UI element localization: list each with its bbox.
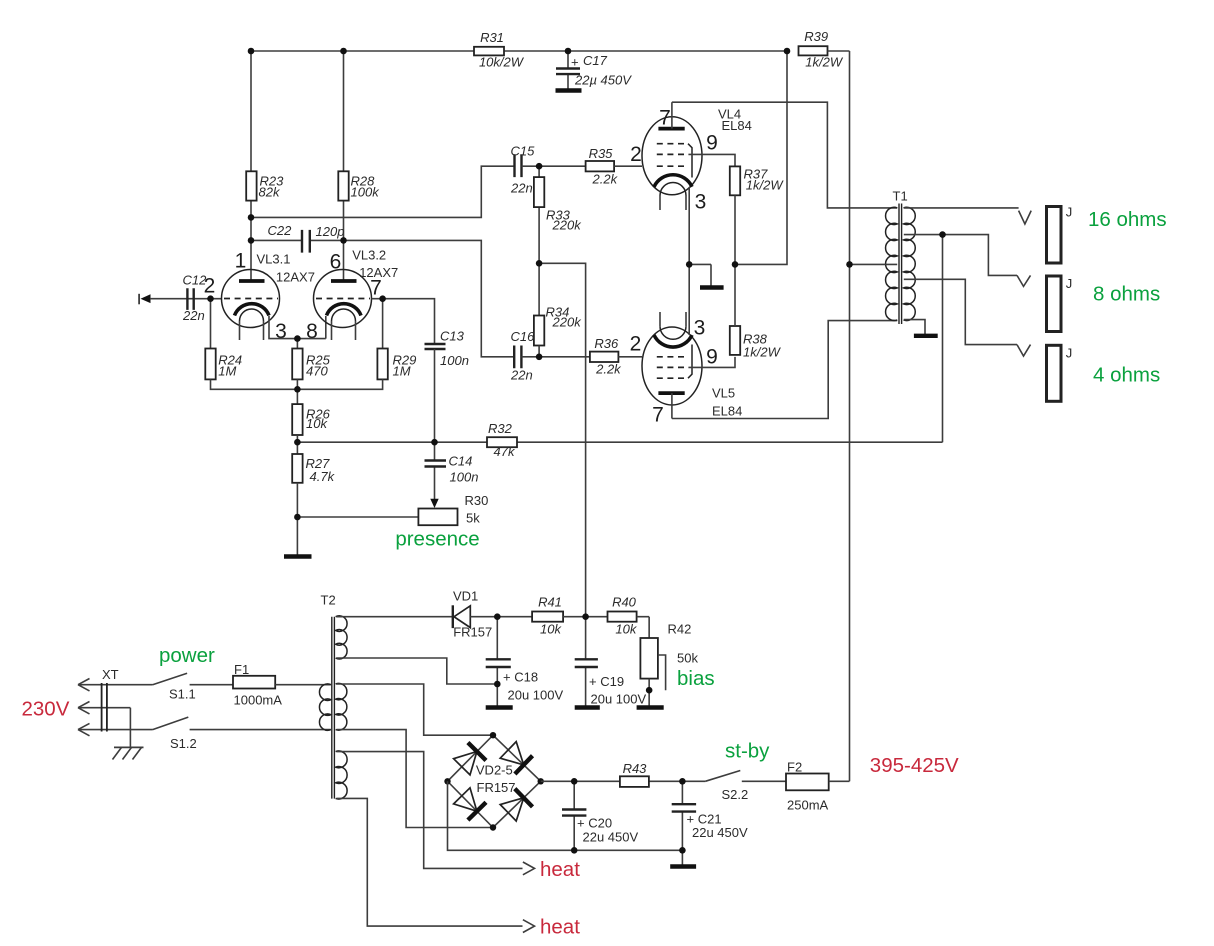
wire mains top — [78, 684, 153, 686]
wire screen B+ drop x787 — [735, 51, 787, 264]
wire VL4 plate pin7 to T1 — [672, 102, 897, 208]
svg-text:8: 8 — [306, 320, 318, 343]
svg-text:+: + — [571, 55, 579, 70]
resistor R36 — [590, 336, 622, 377]
svg-text:100n: 100n — [450, 470, 479, 485]
resistor R27 — [292, 454, 335, 484]
wire R28 anode branch — [343, 51, 345, 281]
svg-text:EL84: EL84 — [712, 404, 742, 419]
svg-text:22n: 22n — [510, 367, 533, 382]
svg-text:20u 100V: 20u 100V — [591, 691, 647, 706]
resistor R32 — [487, 421, 517, 459]
wire T1 tap to 4ohm jack — [904, 279, 1017, 344]
resistor R33 — [534, 166, 582, 315]
svg-text:470: 470 — [306, 364, 328, 379]
wire S1.1 to F1 — [190, 684, 233, 686]
wire R27 to ground and R30 — [297, 483, 418, 556]
wire T1 primary center tap — [850, 263, 898, 265]
pentode VL4 — [642, 102, 752, 210]
svg-text:R42: R42 — [668, 622, 692, 637]
resistor R41 — [532, 595, 563, 637]
svg-text:J: J — [1066, 276, 1073, 291]
wire cathode rail — [211, 379, 383, 404]
jack 16 ohms — [1047, 204, 1073, 263]
wire VL5 screen pin9 to R38 — [688, 357, 735, 368]
capacitor C22 — [251, 223, 344, 253]
bridge rectifier VD2-5 — [448, 735, 541, 827]
wire R26 to R27 — [296, 435, 298, 454]
svg-text:J: J — [1066, 204, 1073, 219]
jack 4 ohms — [1047, 345, 1073, 401]
resistor R40 — [608, 595, 638, 637]
capacitor C20 — [562, 781, 638, 850]
svg-text:3: 3 — [694, 317, 706, 340]
svg-text:8 ohms: 8 ohms — [1093, 283, 1160, 306]
wire F1 to T2 — [275, 684, 331, 686]
transformer T1 — [886, 189, 916, 325]
wire VL3.2 cathode pin8 down to R25 — [297, 316, 325, 349]
wire VL4 screen pin9 to R37 — [688, 154, 735, 166]
svg-text:S2.2: S2.2 — [722, 787, 749, 802]
ground at C21 — [670, 864, 696, 868]
svg-text:C17: C17 — [583, 53, 608, 68]
resistor R39 — [799, 29, 844, 70]
svg-text:10k: 10k — [615, 621, 637, 636]
svg-text:3: 3 — [695, 191, 707, 214]
capacitor C17 — [556, 51, 633, 91]
svg-text:1k/2W: 1k/2W — [743, 344, 782, 359]
svg-text:10k: 10k — [540, 621, 562, 636]
svg-text:EL84: EL84 — [722, 118, 752, 133]
wire R41 to R40 — [563, 616, 607, 618]
svg-text:C14: C14 — [449, 454, 473, 469]
svg-text:50k: 50k — [677, 651, 698, 666]
svg-text:bias: bias — [677, 667, 715, 690]
svg-text:100k: 100k — [351, 185, 381, 200]
svg-text:R30: R30 — [465, 493, 489, 508]
svg-text:220k: 220k — [552, 218, 583, 233]
svg-text:+ C19: + C19 — [589, 674, 624, 689]
svg-text:VD1: VD1 — [453, 589, 478, 604]
svg-text:R40: R40 — [612, 595, 637, 610]
capacitor C18 — [486, 617, 564, 706]
wire T1 secondary bottom to ground — [904, 320, 925, 335]
svg-text:F1: F1 — [234, 662, 249, 677]
diode VD4 bottom-left — [454, 788, 486, 820]
svg-text:J: J — [1066, 345, 1073, 360]
triode VL3.1 — [222, 252, 315, 340]
diode VD5 bottom-right — [500, 789, 532, 821]
svg-text:1M: 1M — [218, 364, 236, 379]
svg-text:2.2k: 2.2k — [595, 362, 622, 377]
svg-text:22n: 22n — [182, 308, 205, 323]
svg-text:C13: C13 — [440, 329, 465, 344]
wire T2 HT winding bottom to bridge — [337, 730, 494, 828]
wire feedback drop to R32 — [942, 235, 944, 443]
resistor R26 — [292, 404, 330, 435]
svg-text:230V: 230V — [22, 697, 70, 720]
wire T2 heater winding 2 bottom to heat — [337, 798, 523, 926]
supply junction dots — [494, 613, 686, 853]
svg-text:10k/2W: 10k/2W — [479, 55, 525, 70]
switch S1.2 — [153, 717, 197, 751]
wire VL3.1 cathode pin3 — [269, 316, 326, 339]
wire F2 to HT — [829, 780, 850, 782]
wire T2 heater winding 1 top to heat — [337, 752, 523, 869]
svg-text:9: 9 — [706, 132, 718, 155]
diode VD2 top-left — [454, 743, 486, 775]
ground at EL84 cathodes — [700, 285, 724, 289]
svg-text:presence: presence — [395, 528, 479, 551]
wire VD1 to R41 — [470, 616, 532, 618]
svg-text:22u 450V: 22u 450V — [583, 830, 639, 845]
jack tip mark 8 ohms — [1017, 275, 1031, 286]
triode VL3.2 — [314, 247, 399, 340]
wire R24 drop — [210, 299, 212, 349]
svg-text:22n: 22n — [510, 181, 533, 196]
svg-text:7: 7 — [370, 277, 382, 300]
svg-text:R31: R31 — [480, 30, 504, 45]
svg-text:FR157: FR157 — [453, 625, 492, 640]
svg-text:st-by: st-by — [725, 740, 770, 763]
switch S1.1 — [153, 673, 196, 701]
svg-text:12AX7: 12AX7 — [276, 269, 315, 284]
svg-text:2: 2 — [630, 333, 642, 356]
svg-text:4.7k: 4.7k — [310, 469, 336, 484]
svg-text:R35: R35 — [589, 146, 614, 161]
svg-text:R36: R36 — [594, 336, 619, 351]
power input arrows 230V — [78, 679, 90, 736]
resistor R35 — [586, 146, 619, 187]
wire T1 tap to 8ohm jack and feedback — [904, 235, 1017, 276]
ground at T1 secondary — [914, 334, 938, 338]
svg-text:250mA: 250mA — [787, 798, 829, 813]
resistor R38 — [730, 326, 782, 359]
svg-text:7: 7 — [659, 107, 671, 130]
capacitor C12 — [182, 272, 207, 323]
wire R32 row — [297, 441, 942, 443]
resistor R43 — [620, 761, 649, 787]
wire C15 junction to R35 — [539, 165, 586, 167]
svg-text:+ C20: + C20 — [577, 816, 612, 831]
svg-text:S1.1: S1.1 — [169, 686, 196, 701]
svg-text:22u 450V: 22u 450V — [692, 825, 748, 840]
svg-text:1k/2W: 1k/2W — [805, 54, 844, 69]
svg-text:4 ohms: 4 ohms — [1093, 363, 1160, 386]
svg-text:220k: 220k — [552, 315, 583, 330]
wire T2 bias winding top to VD1 — [337, 616, 453, 618]
svg-text:7: 7 — [652, 404, 664, 427]
svg-text:1: 1 — [235, 250, 247, 273]
wire cathode junction to ground — [689, 264, 711, 286]
wire R23 anode branch — [250, 51, 252, 281]
wire T2 bias winding bottom to C18 — [337, 658, 498, 684]
svg-text:395-425V: 395-425V — [870, 754, 959, 777]
svg-text:16 ohms: 16 ohms — [1088, 208, 1167, 231]
svg-text:T2: T2 — [321, 593, 336, 608]
wire S2.2 to F2 — [742, 780, 786, 782]
capacitor C13 — [425, 329, 469, 443]
capacitor C16 — [510, 329, 590, 383]
svg-text:VL3.2: VL3.2 — [352, 247, 386, 262]
diode VD3 top-right — [500, 742, 532, 774]
resistor R29 — [377, 349, 416, 380]
svg-text:82k: 82k — [259, 185, 281, 200]
resistor R25 — [292, 349, 330, 380]
ground at R42 — [637, 705, 664, 709]
svg-text:1000mA: 1000mA — [234, 693, 283, 708]
svg-text:power: power — [159, 644, 215, 667]
svg-text:R39: R39 — [804, 29, 828, 44]
svg-text:2: 2 — [204, 275, 216, 298]
wire T1 secondary top to 16ohm jack — [904, 207, 1019, 209]
fuse F1 — [233, 662, 282, 708]
wire VL5 cathode pin3 up — [688, 264, 690, 335]
resistor R23 — [246, 171, 284, 200]
jack tip mark 16 ohms — [1019, 211, 1032, 224]
wire VL4 cathode pin3 down — [688, 187, 690, 264]
svg-text:3: 3 — [275, 320, 287, 343]
wire VL5 plate pin7 to T1 — [672, 321, 897, 419]
jack 8 ohms — [1047, 276, 1073, 332]
resistor R37 — [730, 166, 785, 195]
svg-text:heat: heat — [540, 916, 580, 939]
resistor R31 — [474, 30, 525, 70]
wire S1.2 to T2 — [190, 729, 331, 731]
capacitor C14 — [425, 442, 479, 508]
svg-text:C22: C22 — [268, 223, 293, 238]
svg-text:R32: R32 — [488, 421, 513, 436]
svg-text:+ C18: + C18 — [503, 670, 538, 685]
resistor R28 — [338, 171, 380, 200]
svg-text:VD2-5: VD2-5 — [476, 763, 513, 778]
resistor R34 — [534, 305, 582, 357]
potentiometer R42 — [640, 622, 698, 707]
transformer T2 — [319, 593, 347, 799]
pentode VL5 — [642, 312, 742, 419]
wire R29 drop — [382, 299, 384, 349]
svg-text:120p: 120p — [316, 224, 345, 239]
wire bridge plus rail — [541, 780, 706, 782]
wire R33 R34 mid tap to bias rail — [539, 263, 586, 616]
svg-text:6: 6 — [330, 251, 342, 274]
capacitor C19 — [575, 617, 647, 707]
ground at C18 — [486, 705, 513, 709]
svg-text:VL5: VL5 — [712, 386, 735, 401]
svg-text:100n: 100n — [440, 353, 469, 368]
wire VL3.2 grid pin7 to C13 — [372, 299, 435, 344]
svg-text:R41: R41 — [538, 595, 562, 610]
wire top B+ rail — [251, 50, 787, 52]
switch S2.2 — [705, 771, 748, 802]
resistor R24 — [205, 349, 242, 380]
fuse F2 — [786, 759, 829, 812]
wire R38 to junction — [734, 264, 736, 326]
wire VL3.2 plate to C16 link — [344, 240, 515, 356]
svg-text:S1.2: S1.2 — [170, 736, 197, 751]
svg-text:heat: heat — [540, 858, 580, 881]
svg-text:20u 100V: 20u 100V — [508, 687, 564, 702]
potentiometer R30 presence — [418, 493, 488, 526]
svg-text:T1: T1 — [893, 189, 908, 204]
wire mains earth pin — [78, 708, 130, 748]
wire HT vertical to F2 — [849, 51, 851, 781]
svg-text:R43: R43 — [623, 761, 648, 776]
svg-text:C16: C16 — [511, 329, 536, 344]
svg-text:F2: F2 — [787, 759, 802, 774]
capacitor C21 — [672, 781, 748, 850]
svg-text:XT: XT — [102, 667, 119, 682]
heat arrow 1 — [523, 858, 580, 881]
wire mains bottom — [78, 729, 153, 731]
svg-text:VL3.1: VL3.1 — [257, 252, 291, 267]
svg-text:1M: 1M — [393, 364, 411, 379]
svg-text:2.2k: 2.2k — [592, 172, 619, 187]
wire VL3.1 plate to C15 link — [251, 166, 515, 217]
wire R37 to junction — [734, 195, 736, 264]
wire T2 HT winding top to bridge — [337, 684, 494, 735]
svg-text:9: 9 — [706, 346, 718, 369]
svg-text:C15: C15 — [511, 143, 536, 158]
svg-text:FR157: FR157 — [477, 780, 516, 795]
earth symbol — [113, 747, 144, 759]
heat arrow 2 — [523, 916, 580, 939]
wire R40 to R42 — [637, 617, 650, 638]
connector XT — [102, 667, 119, 732]
svg-text:5k: 5k — [466, 511, 480, 526]
wire R35 to VL4 grid — [614, 165, 642, 167]
svg-text:1k/2W: 1k/2W — [746, 177, 785, 192]
wire R39 to HT drop — [827, 50, 849, 52]
wire bridge minus rail — [448, 781, 683, 865]
input terminal XS — [139, 294, 222, 305]
svg-text:10k: 10k — [306, 416, 328, 431]
ground at R27 — [284, 554, 312, 558]
bridge vertex dots — [444, 732, 544, 831]
jack tip mark 4 ohms — [1017, 345, 1031, 356]
wire R36 to VL5 grid — [618, 356, 642, 358]
svg-text:2: 2 — [630, 143, 642, 166]
diode VD1 — [453, 589, 492, 640]
capacitor C15 — [510, 143, 539, 195]
svg-text:47k: 47k — [494, 444, 516, 459]
ground at C19 — [575, 705, 600, 709]
svg-text:22µ 450V: 22µ 450V — [574, 73, 632, 88]
